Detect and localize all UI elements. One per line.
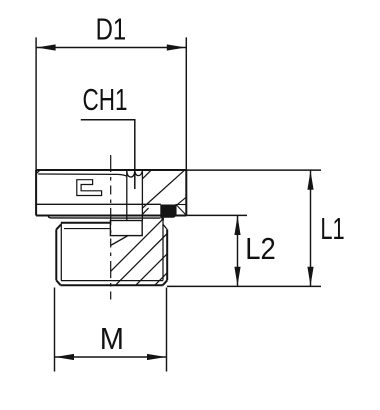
svg-text:L2: L2 [245, 231, 275, 266]
svg-text:M: M [100, 321, 124, 356]
svg-text:D1: D1 [96, 11, 127, 46]
svg-text:L1: L1 [320, 211, 344, 246]
svg-text:CH1: CH1 [83, 82, 128, 117]
